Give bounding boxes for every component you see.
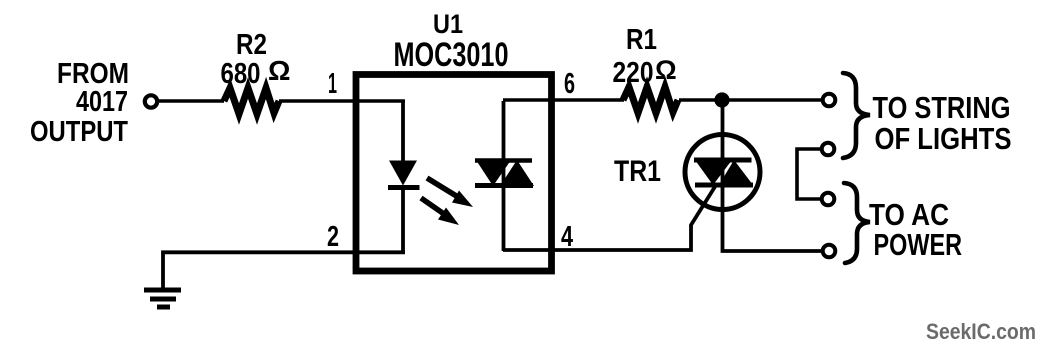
svg-text:2: 2 <box>327 221 339 253</box>
svg-text:4017: 4017 <box>76 86 128 118</box>
node: FROM 4017 OUTPUT label <box>30 58 129 148</box>
junction node <box>714 92 729 107</box>
terminal 1: string of lights top <box>823 94 836 107</box>
svg-text:POWER: POWER <box>874 229 963 262</box>
wire: R2 to U1 pin 1 <box>279 99 405 103</box>
wire: internal LED cathode <box>401 185 405 252</box>
svg-text:TR1: TR1 <box>614 155 661 188</box>
wire: TR1 MT2 down and to terminal 4 <box>723 184 823 251</box>
svg-text:4: 4 <box>561 221 573 253</box>
triac TR1 symbol <box>694 157 753 188</box>
svg-text:R2: R2 <box>236 29 267 61</box>
svg-text:U1: U1 <box>433 9 463 39</box>
label TO STRING OF LIGHTS <box>873 92 1012 156</box>
svg-text:TO AC: TO AC <box>869 199 949 232</box>
label TO AC POWER <box>869 199 962 262</box>
triac TR1 circle <box>685 135 760 210</box>
svg-text:220: 220 <box>613 57 654 89</box>
wire: junction down to TR1 <box>721 100 725 161</box>
wire: pin 6 to R1 <box>503 98 624 102</box>
terminal 2 <box>822 143 835 156</box>
diac inside U1 <box>475 160 534 186</box>
svg-text:1: 1 <box>328 68 337 100</box>
terminal 4: ac power bottom <box>823 245 836 258</box>
resistor R1 <box>623 87 678 113</box>
LED diode inside U1 <box>388 161 420 188</box>
svg-text:OF LIGHTS: OF LIGHTS <box>875 123 1012 156</box>
svg-text:6: 6 <box>564 68 575 100</box>
wire: link terminal 2 to terminal 3 <box>797 149 820 199</box>
svg-text:Ω: Ω <box>268 55 290 86</box>
svg-text:OUTPUT: OUTPUT <box>30 116 128 148</box>
brace: to string of lights <box>843 73 870 158</box>
light arrows (optical coupling) <box>421 178 473 225</box>
svg-text:R1: R1 <box>626 24 657 56</box>
svg-text:MOC3010: MOC3010 <box>394 36 509 74</box>
svg-text:680: 680 <box>221 58 261 90</box>
wire: R1 to terminal 1 <box>679 98 822 102</box>
terminal: input from 4017 <box>145 95 157 107</box>
terminal 3 <box>822 193 835 206</box>
wire: pin 2 to ground <box>163 252 405 288</box>
wire: input to R2 <box>159 99 224 103</box>
svg-text:SeekIC.com: SeekIC.com <box>926 319 1036 344</box>
svg-text:Ω: Ω <box>655 55 677 85</box>
wire: internal diac vertical <box>502 101 506 251</box>
wire: pin 4 to TR1 gate <box>503 185 716 250</box>
ground <box>144 290 181 307</box>
brace: to ac power <box>844 183 870 263</box>
svg-text:TO STRING: TO STRING <box>873 92 1011 125</box>
resistor R2 <box>224 88 279 114</box>
optocoupler U1 <box>356 75 552 272</box>
wire: internal LED anode <box>401 101 405 162</box>
